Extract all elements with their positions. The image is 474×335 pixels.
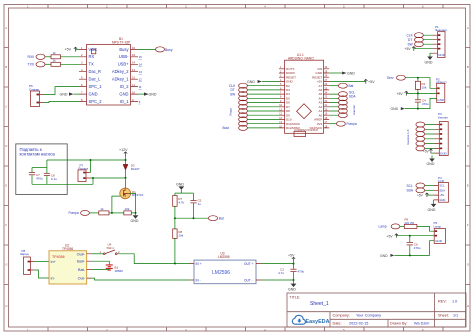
svg-text:RX0: RX0 bbox=[28, 55, 35, 59]
svg-text:ADkey_1: ADkey_1 bbox=[112, 77, 129, 82]
svg-text:0.1u: 0.1u bbox=[51, 177, 57, 181]
+5V flag lamp bbox=[387, 234, 435, 239]
svg-text:15: 15 bbox=[132, 53, 136, 57]
svg-text:GND: GND bbox=[149, 93, 157, 97]
svg-text:220 2W: 220 2W bbox=[405, 221, 415, 225]
svg-text:B: B bbox=[467, 65, 469, 69]
svg-text:470u: 470u bbox=[422, 102, 429, 106]
svg-text:1u: 1u bbox=[198, 202, 202, 206]
svg-text:12: 12 bbox=[132, 76, 136, 80]
mp3 module right pin numbers bbox=[132, 46, 136, 102]
GND flag at nano left GND bbox=[247, 80, 279, 84]
wires P8 to TP4056 bbox=[34, 261, 49, 263]
svg-text:LM2596: LM2596 bbox=[212, 270, 230, 276]
svg-text:11: 11 bbox=[132, 83, 135, 87]
svg-text:DT: DT bbox=[408, 38, 412, 42]
svg-text:LM2596: LM2596 bbox=[218, 255, 230, 259]
speaker connector P6 bbox=[29, 84, 44, 106]
svg-text:1k: 1k bbox=[53, 58, 57, 62]
net flag SDA to lcd bbox=[407, 188, 434, 193]
nano right pin names bbox=[310, 67, 323, 130]
GND flag servo bbox=[391, 98, 437, 111]
LM2596 regulator U3 bbox=[194, 251, 256, 283]
capacitor C7 470u electrolytic bbox=[29, 168, 43, 185]
junction source node bbox=[135, 212, 137, 214]
svg-text:470u: 470u bbox=[36, 176, 43, 180]
+5V flag encoder bbox=[405, 47, 433, 52]
svg-text:16: 16 bbox=[132, 46, 136, 50]
svg-text:Dac_L: Dac_L bbox=[89, 77, 102, 82]
junction gate node bbox=[111, 212, 113, 214]
TP4056 pin names bbox=[51, 260, 57, 280]
svg-text:Out+: Out+ bbox=[77, 252, 86, 256]
GND flag below buttons bbox=[427, 156, 435, 167]
divider top rail bbox=[175, 192, 194, 194]
svg-text:GND: GND bbox=[428, 208, 436, 212]
svg-text:GND: GND bbox=[347, 72, 355, 76]
GND flag at nano right GND bbox=[329, 72, 355, 76]
svg-text:+5V: +5V bbox=[405, 47, 412, 51]
svg-text:USB+: USB+ bbox=[118, 62, 129, 67]
svg-text:Кнопки: Кнопки bbox=[438, 116, 448, 120]
svg-text:Sheet_1: Sheet_1 bbox=[310, 301, 329, 307]
svg-text:4.7k: 4.7k bbox=[178, 201, 184, 205]
svg-text:A: A bbox=[467, 26, 469, 30]
svg-text:GND: GND bbox=[425, 60, 433, 64]
net flag Pompa at gate bbox=[69, 210, 99, 215]
resistor R8 10k bbox=[173, 218, 184, 263]
svg-text:F: F bbox=[467, 223, 469, 227]
junction divider to IN+ bbox=[174, 263, 176, 265]
svg-text:E: E bbox=[467, 184, 469, 188]
resistor R9 220 2W bbox=[404, 218, 434, 232]
svg-text:OUT +: OUT + bbox=[244, 262, 254, 266]
svg-text:GND: GND bbox=[89, 92, 98, 97]
svg-text:18650: 18650 bbox=[115, 269, 124, 273]
svg-text:GND: GND bbox=[247, 80, 255, 84]
svg-text:VCC: VCC bbox=[89, 47, 98, 52]
mosfet source wire bbox=[129, 193, 136, 213]
svg-text:TX: TX bbox=[89, 62, 95, 67]
+5V flag at LM2596 output bbox=[288, 254, 295, 264]
connector P5 Lamp bbox=[434, 221, 446, 243]
svg-text:+5V: +5V bbox=[397, 92, 404, 96]
junction +12V rail bbox=[125, 159, 127, 161]
svg-text:+5V: +5V bbox=[65, 48, 72, 52]
LM2596 output wires bbox=[261, 263, 294, 265]
TP4056 right pins bbox=[87, 254, 92, 278]
svg-text:14: 14 bbox=[132, 61, 136, 65]
svg-text:TITLE:: TITLE: bbox=[290, 295, 301, 299]
svg-text:4.7u: 4.7u bbox=[278, 271, 284, 275]
svg-text:B: B bbox=[5, 65, 7, 69]
svg-text:+5V: +5V bbox=[423, 149, 430, 153]
+5V flag at nano +5V pin bbox=[329, 79, 375, 84]
capacitor C2 470u at output bbox=[278, 264, 304, 280]
svg-text:SDA: SDA bbox=[407, 189, 414, 193]
svg-text:SW: SW bbox=[408, 43, 413, 47]
GND flag at mp3 right pin10 bbox=[138, 92, 157, 96]
wire SPC_2 to speaker bbox=[44, 102, 79, 103]
nano pin numbers bbox=[279, 66, 282, 128]
+5V flag servo bbox=[397, 91, 437, 96]
svg-text:+5V: +5V bbox=[417, 193, 424, 197]
resistor R6 10k bbox=[124, 207, 136, 215]
svg-text:MP3-TF-16P: MP3-TF-16P bbox=[112, 41, 130, 45]
mosfet Q1 bbox=[120, 188, 144, 199]
GND flag lamp bbox=[380, 241, 434, 258]
resistor R1 10k vertical bbox=[415, 78, 426, 94]
net flag RX0 bbox=[28, 54, 52, 59]
capacitor C8 0.1u bbox=[44, 168, 57, 185]
net flag Bat (A7) bbox=[329, 83, 353, 88]
net flag Lamp bbox=[379, 224, 405, 229]
svg-text:H: H bbox=[5, 304, 7, 308]
TP4056 charger U2 bbox=[49, 243, 87, 284]
svg-text:H: H bbox=[467, 304, 469, 308]
svg-text:GND: GND bbox=[435, 239, 443, 243]
svg-text:TP4056: TP4056 bbox=[52, 255, 65, 259]
capacitor C5 1u bbox=[190, 193, 201, 218]
svg-text:Serv: Serv bbox=[387, 76, 394, 80]
svg-text:IO_2: IO_2 bbox=[120, 84, 130, 89]
net flags A5..A0 bbox=[329, 90, 356, 117]
svg-text:OUT -: OUT - bbox=[244, 278, 253, 282]
nano left pin names bbox=[286, 67, 301, 130]
svg-text:E: E bbox=[5, 184, 7, 188]
svg-text:+5V: +5V bbox=[288, 254, 295, 258]
svg-text:1/1: 1/1 bbox=[453, 314, 458, 318]
svg-text:D12/MISO D13/SCK: D12/MISO D13/SCK bbox=[295, 128, 319, 132]
mp3 module pin names bbox=[89, 47, 103, 104]
battery B1 18650 bbox=[92, 261, 124, 273]
nano right pins bbox=[324, 69, 330, 128]
TP4056 Out- wire to LM2596 bbox=[92, 278, 190, 280]
mp3 pin1 indicator square bbox=[91, 49, 95, 54]
led net flags D5-D11 bbox=[223, 96, 280, 131]
svg-text:RL207: RL207 bbox=[131, 167, 140, 171]
svg-text:контактам насоса: контактам насоса bbox=[20, 152, 56, 157]
svg-text:+12V: +12V bbox=[119, 148, 128, 152]
snubber rails bbox=[32, 167, 47, 169]
svg-text:GND: GND bbox=[288, 288, 296, 292]
Busy net flag bbox=[138, 47, 173, 52]
svg-text:Lamp: Lamp bbox=[434, 225, 442, 229]
svg-text:SDA: SDA bbox=[439, 188, 445, 192]
svg-text:Pompa: Pompa bbox=[69, 211, 79, 215]
svg-text:EasyEDA: EasyEDA bbox=[306, 319, 330, 325]
net flag Serv bbox=[387, 75, 436, 88]
svg-text:Кнопки 1-6: Кнопки 1-6 bbox=[406, 129, 410, 144]
svg-text:USB-: USB- bbox=[119, 54, 129, 59]
pump connector wires bbox=[90, 160, 92, 173]
mp3 module left pins bbox=[79, 49, 87, 101]
svg-text:TP4056: TP4056 bbox=[62, 247, 73, 251]
+5V power flag at VCC bbox=[65, 47, 80, 51]
svg-text:GND: GND bbox=[176, 183, 184, 187]
svg-text:13: 13 bbox=[132, 68, 136, 72]
switch SW1 bbox=[92, 242, 190, 263]
svg-text:1k: 1k bbox=[53, 51, 57, 55]
svg-text:Busy: Busy bbox=[165, 48, 173, 52]
net flag Pompa (D13) bbox=[329, 121, 357, 126]
GND flag top of divider bbox=[176, 183, 184, 193]
svg-text:10k: 10k bbox=[178, 234, 183, 238]
svg-text:GND: GND bbox=[380, 254, 388, 258]
svg-text:470u: 470u bbox=[414, 246, 421, 250]
nano icsp diamond bbox=[297, 104, 312, 119]
svg-text:Your Company: Your Company bbox=[356, 314, 381, 318]
svg-text:Bat-: Bat- bbox=[78, 268, 86, 272]
svg-text:2022-02-15: 2022-02-15 bbox=[349, 322, 368, 326]
mp3 module right pins bbox=[131, 49, 139, 101]
svg-text:In+: In+ bbox=[51, 260, 57, 264]
svg-text:SPC_2: SPC_2 bbox=[89, 99, 103, 104]
svg-text:GND: GND bbox=[439, 198, 445, 202]
svg-text:13: 13 bbox=[139, 70, 143, 74]
svg-text:+5V: +5V bbox=[439, 193, 444, 197]
connector P2 Servo bbox=[436, 77, 447, 102]
svg-text:Date:: Date: bbox=[333, 322, 342, 326]
svg-text:GND: GND bbox=[119, 92, 128, 97]
svg-text:SW: SW bbox=[230, 92, 235, 96]
svg-text:TX0: TX0 bbox=[28, 63, 34, 67]
servo junction dots bbox=[417, 77, 419, 79]
capacitor C4 470u bbox=[415, 93, 429, 108]
net flag DT (D3) bbox=[231, 87, 280, 92]
arduino nano U1.1 body bbox=[285, 53, 324, 133]
GND flag lcd bbox=[428, 200, 437, 212]
svg-text:Bat+: Bat+ bbox=[77, 260, 86, 264]
capacitor C6 470u bbox=[407, 236, 421, 256]
mp3 module U2 body bbox=[87, 37, 131, 105]
svg-text:ADkey_2: ADkey_2 bbox=[112, 69, 129, 74]
+5V flag buttons bbox=[423, 149, 435, 153]
svg-text:IRF3710: IRF3710 bbox=[132, 193, 144, 197]
svg-text:A: A bbox=[5, 26, 7, 30]
+5V flag lcd bbox=[417, 193, 434, 198]
+12V power flag bbox=[119, 148, 128, 160]
svg-text:+5V: +5V bbox=[387, 234, 394, 238]
svg-text:SPC_1: SPC_1 bbox=[89, 84, 103, 89]
svg-text:Pompa: Pompa bbox=[347, 122, 357, 126]
svg-text:1.0: 1.0 bbox=[452, 300, 457, 304]
svg-text:Заряд: Заряд bbox=[20, 252, 29, 256]
LM2596 pins bbox=[189, 264, 261, 280]
mp3 right net number labels bbox=[139, 55, 143, 104]
title block frame bbox=[287, 293, 466, 327]
svg-text:Company:: Company: bbox=[333, 314, 350, 318]
svg-text:GND: GND bbox=[440, 152, 448, 156]
resistor R1 1k bbox=[51, 51, 79, 59]
net flags CLK DT SW to encoder bbox=[407, 33, 433, 47]
svg-text:SCL: SCL bbox=[439, 184, 445, 188]
GND flag at mp3 pin7 bbox=[60, 92, 80, 96]
svg-text:GND: GND bbox=[391, 107, 399, 111]
svg-text:SERVO: SERVO bbox=[436, 81, 447, 85]
svg-text:REV:: REV: bbox=[438, 300, 447, 304]
resistor R5 1k bbox=[99, 207, 124, 215]
svg-text:12: 12 bbox=[139, 78, 143, 82]
svg-text:15: 15 bbox=[139, 55, 143, 59]
svg-text:Out-: Out- bbox=[78, 277, 86, 281]
wire snubber to +12V node bbox=[47, 159, 126, 161]
svg-text:10: 10 bbox=[132, 91, 136, 95]
svg-text:Dac_R: Dac_R bbox=[89, 69, 102, 74]
wire diode to mosfet drain bbox=[125, 178, 127, 188]
net flag TX0 bbox=[28, 62, 52, 67]
svg-text:Леды: Леды bbox=[229, 108, 233, 115]
svg-text:Busy: Busy bbox=[119, 47, 129, 52]
svg-text:IN +: IN + bbox=[196, 262, 202, 266]
GND flag below LM2596 output bbox=[288, 280, 296, 292]
svg-text:IO_1: IO_1 bbox=[120, 99, 130, 104]
svg-text:GND: GND bbox=[427, 162, 435, 166]
svg-text:SW-1: SW-1 bbox=[107, 246, 115, 250]
resistor R7 4.7k bbox=[173, 193, 185, 218]
svg-text:GND: GND bbox=[131, 219, 139, 223]
nano left pins bbox=[279, 69, 285, 128]
charger input connector P8 bbox=[20, 249, 34, 275]
svg-text:GND: GND bbox=[60, 93, 68, 97]
svg-text:Drawn By:: Drawn By: bbox=[390, 322, 408, 326]
svg-text:10k: 10k bbox=[125, 207, 130, 211]
svg-text:GND: GND bbox=[438, 53, 446, 57]
svg-text:11: 11 bbox=[139, 85, 142, 89]
EasyEDA logo bbox=[292, 315, 329, 325]
svg-text:Bat: Bat bbox=[349, 84, 354, 88]
svg-text:14: 14 bbox=[139, 63, 143, 67]
buttons net flags bbox=[406, 122, 435, 151]
svg-text:Кнопки: Кнопки bbox=[352, 105, 356, 115]
GND flag encoder bbox=[425, 53, 433, 64]
svg-text:GND: GND bbox=[437, 98, 445, 102]
svg-text:Bout: Bout bbox=[223, 126, 230, 130]
svg-text:SCL: SCL bbox=[407, 184, 413, 188]
svg-text:470u: 470u bbox=[298, 270, 305, 274]
wire SPC_1 to speaker bbox=[44, 87, 79, 95]
mp3 module left pin numbers bbox=[81, 46, 83, 102]
svg-text:+5V: +5V bbox=[368, 80, 375, 84]
svg-text:Lamp: Lamp bbox=[379, 225, 387, 229]
net flag CLK (D2) bbox=[229, 83, 279, 88]
svg-text:SDA: SDA bbox=[349, 95, 356, 99]
svg-text:In-: In- bbox=[51, 276, 56, 280]
svg-text:RX: RX bbox=[89, 54, 95, 59]
svg-text:Bat: Bat bbox=[219, 217, 224, 221]
resistor R2 1k bbox=[51, 58, 79, 66]
svg-text:F: F bbox=[5, 223, 7, 227]
GND flag below mosfet bbox=[131, 213, 139, 223]
svg-text:ARDUINO_NANO: ARDUINO_NANO bbox=[288, 57, 314, 61]
svg-text:10k: 10k bbox=[422, 85, 427, 89]
net flag SW (D4) bbox=[230, 92, 279, 97]
pump connector P7 bbox=[78, 163, 91, 181]
connector P1 Encoder bbox=[433, 25, 448, 58]
svg-text:1k: 1k bbox=[100, 207, 104, 211]
junction dots lamp bbox=[409, 235, 411, 237]
mosfet gate wire bbox=[112, 196, 120, 213]
svg-text:CLK: CLK bbox=[407, 34, 414, 38]
svg-text:Sheet:: Sheet: bbox=[438, 314, 449, 318]
diode D3 RL207 bbox=[123, 160, 140, 178]
svg-text:Wa Dzim: Wa Dzim bbox=[414, 322, 429, 326]
snubber note box bbox=[16, 144, 67, 195]
nano usb connector stub bbox=[294, 131, 306, 136]
net flag SCL to lcd bbox=[407, 183, 434, 188]
divider mid rail and Bat flag bbox=[174, 216, 224, 221]
svg-text:IN -: IN - bbox=[196, 278, 201, 282]
